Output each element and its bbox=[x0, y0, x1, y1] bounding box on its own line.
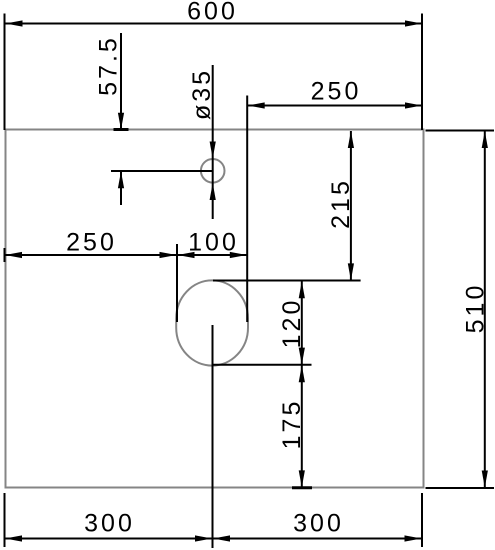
dim 510 arrow top bbox=[482, 131, 488, 148]
svg-text:300: 300 bbox=[293, 510, 344, 538]
svg-text:100: 100 bbox=[188, 229, 239, 257]
svg-text:57.5: 57.5 bbox=[95, 35, 123, 96]
dim 300 right arrow right bbox=[405, 535, 422, 541]
dim 100 arrow right bbox=[230, 252, 247, 258]
svg-text:250: 250 bbox=[311, 78, 362, 106]
svg-text:250: 250 bbox=[66, 229, 117, 257]
dim 100 extension line (drain left tangent) bbox=[176, 244, 178, 322]
faucet hole circle ø35 bbox=[201, 159, 225, 183]
svg-text:215: 215 bbox=[327, 178, 355, 229]
dim 600 extension line left bbox=[4, 14, 6, 131]
dim ø35 lower arrow up bbox=[210, 183, 216, 200]
dim 120 arrow bottom bbox=[299, 348, 305, 365]
dim 175 tick on bottom edge bbox=[292, 486, 312, 489]
dim 57.5 upper line with down arrow bbox=[118, 33, 124, 130]
dim 600 extension line right bbox=[421, 14, 423, 131]
dim 100 arrow left bbox=[178, 252, 195, 258]
dim 250 top extension line (drain right tangent) bbox=[246, 96, 248, 323]
dim 300 right arrow left bbox=[213, 535, 230, 541]
drain hole oval 100x120 bbox=[176, 280, 248, 365]
svg-text:175: 175 bbox=[278, 399, 306, 450]
dim 600 line bbox=[6, 23, 423, 25]
dim 175 arrow bottom bbox=[299, 470, 305, 487]
drain bottom tangent line bbox=[213, 364, 312, 366]
dim 215 arrow top bbox=[348, 131, 354, 148]
dim 300 left arrow right bbox=[195, 535, 212, 541]
svg-text:510: 510 bbox=[462, 283, 490, 334]
dim 250 top line bbox=[247, 105, 422, 107]
svg-text:600: 600 bbox=[187, 0, 238, 26]
dim 510 extension line bottom bbox=[426, 487, 495, 489]
dim 250 left extension segment bbox=[4, 248, 6, 262]
dim ø35 line with down arrow bbox=[210, 65, 216, 219]
dim 175 arrow top bbox=[299, 365, 305, 382]
dim 57.5 tick on top edge bbox=[114, 128, 129, 131]
svg-text:120: 120 bbox=[278, 298, 306, 349]
drain top tangent line bbox=[213, 280, 361, 282]
bottom extension line left bbox=[4, 493, 6, 547]
dim 215 line bbox=[350, 131, 352, 280]
dim 600 arrow right bbox=[405, 20, 422, 26]
bottom extension line right bbox=[421, 493, 423, 547]
dim 250 top arrow right bbox=[405, 102, 422, 108]
dim 250 left arrow left bbox=[5, 252, 22, 258]
drain centerline down bbox=[212, 325, 214, 548]
dim 250 left arrow right bbox=[160, 252, 177, 258]
dim 175 line bbox=[301, 365, 303, 487]
svg-text:300: 300 bbox=[84, 510, 135, 538]
dim 250 left line bbox=[5, 254, 178, 256]
dim 215 arrow bottom bbox=[348, 263, 354, 280]
dim 300 left arrow left bbox=[5, 535, 22, 541]
bottom dimension line bbox=[5, 538, 423, 540]
dim 600 arrow left bbox=[6, 20, 23, 26]
dim 120 line bbox=[301, 281, 303, 364]
dim 510 arrow bottom bbox=[482, 471, 488, 488]
dim 120 arrow top bbox=[299, 281, 305, 298]
dim 510 line bbox=[484, 131, 486, 488]
dim 510 extension line top bbox=[426, 130, 495, 132]
dim 250 top arrow left bbox=[248, 102, 265, 108]
dim 57.5 lower arrow up with tail bbox=[118, 171, 124, 205]
dim 100 line bbox=[177, 254, 247, 256]
faucet hole centerline bbox=[111, 170, 213, 172]
svg-text:ø35: ø35 bbox=[188, 68, 216, 120]
sink outline rectangle 600x510 bbox=[6, 130, 424, 488]
